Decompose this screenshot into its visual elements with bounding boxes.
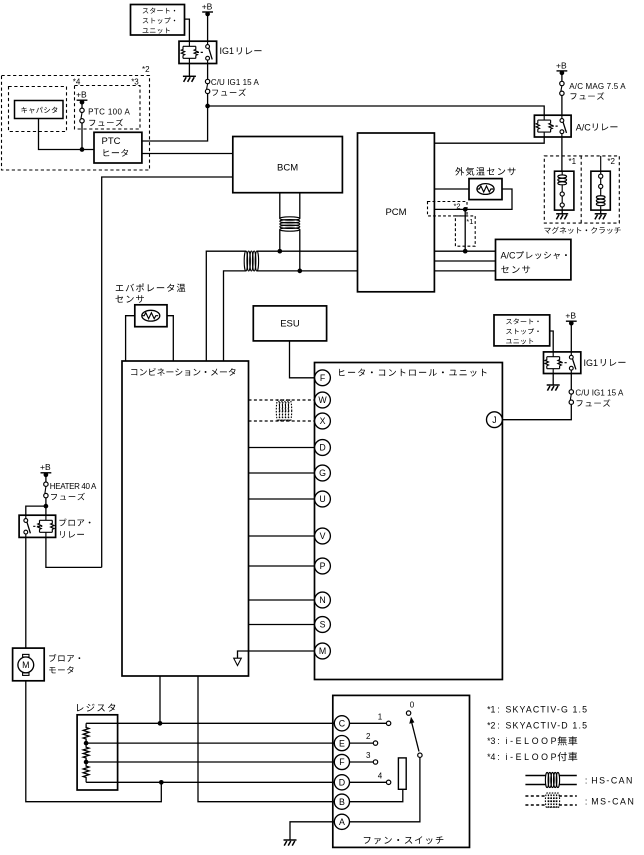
connector C (fan switch) [334,716,349,731]
connector W (heater control unit) [315,392,331,408]
connector X (heater control unit) [315,413,331,429]
label ambient temp sensor [455,167,515,176]
wire fuse to junction [207,94,209,106]
wire fuse to A/C relay switch [561,96,563,116]
wire +B to IG1 relay 2 switch [570,322,572,352]
combination meter [122,361,249,676]
IG1 relay (right) [544,352,581,374]
start-stop unit (right) [494,315,550,346]
connector N (heater control unit) [315,592,331,608]
svg-text:V: V [320,531,326,541]
svg-text::: : [497,705,499,715]
wire evap sensor left leg [126,316,135,361]
wire fuse to junction [45,498,47,506]
svg-text:MS-CAN: MS-CAN [591,796,634,806]
legend HS-CAN symbol [525,772,576,787]
fuse PTC 100 A [80,108,84,123]
connector V (heater control unit) [315,528,331,544]
blower motor [13,648,45,681]
svg-text:D: D [319,443,325,453]
junction node pressure line [463,249,468,254]
svg-text:+B: +B [202,1,213,11]
MS-CAN dashed wire W [249,399,315,401]
fuse dashed box *3 *4 [75,86,141,130]
svg-text:SKYACTIV-G 1.5: SKYACTIV-G 1.5 [506,705,588,715]
wire junction down to PTC heater [142,106,208,141]
twisted pair meter-PCM (HS-CAN) [244,251,258,271]
wire relay switch to blower motor [25,537,27,648]
fan switch rotor arm [409,717,422,758]
legend MS-CAN text [585,796,634,806]
svg-text:+B: +B [40,462,51,472]
connector D (heater control unit) [315,440,331,456]
svg-text:PCM: PCM [385,207,406,218]
fan switch contact 4 [350,771,391,784]
svg-text:M: M [22,660,29,670]
ground below IG1 relay 2 coil [547,374,560,391]
ground below clutch *1 [556,210,568,219]
fan switch resistor [350,758,407,802]
svg-text:*1: *1 [569,157,577,166]
svg-text:C/U IG1 15 A: C/U IG1 15 A [211,78,260,87]
wire CAN-H to PCM and meter [206,251,246,361]
label IG1 relay 2 [584,358,626,368]
svg-text:*4: *4 [487,752,495,762]
connector M (heater control unit) [315,643,331,659]
svg-text:F: F [320,373,326,383]
svg-text:*3: *3 [131,78,139,87]
magnet clutch coil *1 [555,171,574,210]
ambient temp sensor [469,179,502,200]
svg-text:B: B [339,797,345,807]
dashed option box *1 (sensor) [455,216,475,246]
A/C relay [534,115,571,137]
svg-text::: : [497,752,499,762]
wire junction to relay coil [45,506,47,515]
wire relay 2 switch to fuse [570,374,572,390]
arrow (continuation) [234,658,242,665]
wire BCM CAN-H down [279,193,281,219]
wire rotor to connector A [350,757,420,821]
svg-text:HS-CAN: HS-CAN [591,775,632,785]
svg-text:U: U [319,494,325,504]
A/C pressure sensor [496,239,571,279]
svg-text:*2: *2 [607,157,615,166]
wire connector A to ground [290,822,334,840]
svg-text:IG1: IG1 [584,358,599,368]
wire blower motor to fan switch D line [26,681,162,802]
legend *2 SKYACTIV-D [487,720,587,730]
wire PCM to pressure sensor 3 [434,270,495,272]
wire meter to D [249,447,315,449]
ground below IG1 relay coil [183,64,196,82]
svg-text:PTC: PTC [102,136,121,147]
label blower relay [59,518,90,538]
wire BCM to blower relay coil (long left) [102,177,233,567]
dashed option box *2 (sensor) [428,202,468,216]
+B supply (top) [202,1,213,16]
junction node line C [158,721,163,726]
connector G (heater control unit) [315,465,331,481]
wire junction to relay switch [26,506,46,515]
svg-text:+B: +B [565,311,576,321]
wire ESU to heater control F [290,341,315,378]
twisted pair meter-heater (MS-CAN) [276,400,291,422]
+B supply (A/C) [556,60,567,75]
wire PCM option *2 [434,208,465,210]
resistor unit [77,715,118,790]
svg-text::: : [497,720,499,730]
svg-text:4: 4 [378,771,383,780]
svg-text:C/U IG1 15 A: C/U IG1 15 A [575,389,624,398]
wire relay coil to BCM line [46,537,102,567]
svg-text:PTC 100 A: PTC 100 A [88,108,130,117]
junction node sensor return [463,207,468,212]
fan switch contact 1 [350,713,391,726]
svg-text::: : [585,775,587,785]
wire +B to IG1 relay switch [207,13,209,41]
wire line C [86,722,334,724]
svg-text:0: 0 [410,701,415,710]
label A/C relay [576,122,618,132]
legend *3 i-ELOOP no i-ELOOP [487,736,577,746]
wire relay switch to fuse [207,64,209,80]
label resistor [77,704,115,712]
MS-CAN dashed wire X [249,420,315,422]
svg-text:+B: +B [556,60,567,70]
label evaporator temp sensor [116,283,186,302]
svg-text:N: N [319,595,325,605]
svg-text:BCM: BCM [277,162,298,173]
connector F (heater control unit) [315,370,331,386]
label IG1 relay [220,46,262,56]
connector E (fan switch) [334,736,349,751]
junction node PTC feed [80,147,85,152]
svg-text:F: F [339,757,345,767]
legend HS-CAN text [585,775,632,785]
+B supply (heater) [40,462,51,477]
wire +B to heater fuse [45,474,47,482]
+B supply (IG1 right) [565,311,576,326]
fan switch box [333,695,470,847]
connector A (fan switch) [334,814,349,829]
magnet clutch divider [580,156,582,223]
legend MS-CAN symbol [525,793,576,808]
wire meter to S [249,624,315,626]
fuse C/U IG1 15 A (right) [569,390,573,405]
svg-text:1: 1 [378,713,383,722]
svg-text:J: J [492,415,496,425]
svg-text:SKYACTIV-D 1.5: SKYACTIV-D 1.5 [506,720,588,730]
svg-text:A: A [339,817,345,827]
svg-text:A/C: A/C [576,122,592,132]
wire ambient sensor return [465,189,512,209]
capacitor dashed box [9,87,67,132]
ground below clutch *2 [595,210,607,219]
label A/C MAG 7.5 A fuse [569,82,626,100]
svg-text:*4: *4 [73,78,81,87]
BCM [233,137,343,193]
label C/U IG1 15 A fuse 2 [575,389,624,407]
wire line D [86,781,334,783]
PTC heater [94,132,142,163]
svg-text:+B: +B [76,90,87,100]
connector J (heater control unit) [487,412,503,428]
capacitor unit [15,101,64,119]
wire fuse 2 to connector J [502,404,571,419]
svg-text:A/C MAG 7.5 A: A/C MAG 7.5 A [569,82,626,91]
svg-text::: : [585,796,587,806]
wire meter to resistor line C [159,676,161,723]
wire start-stop to IG1 relay 2 coil [550,331,554,352]
svg-text:E: E [339,738,345,748]
wire PTC heater to BCM [142,153,233,155]
wire A/C relay switch to magnet clutch [561,137,563,171]
blower relay [19,515,56,537]
junction node CAN-H [277,249,282,254]
label blower motor [49,654,80,674]
svg-text:P: P [320,561,326,571]
wire option *1 vertical [464,209,466,251]
wire meter to M with ground arrow [238,651,315,658]
fan switch contact 3 [350,751,378,764]
wire capacitor to PTC heater [39,119,95,150]
wire BCM CAN-L down [299,193,301,219]
wire PCM to ambient sensor [434,188,469,190]
twisted pair BCM (HS-CAN) [280,217,300,231]
wire meter to connector B [198,676,334,802]
magnet clutch coil *2 [591,156,610,210]
fan switch position 0 contact [406,701,414,716]
magnet clutch dashed box [544,156,619,223]
label C/U IG1 15 A fuse [211,78,260,96]
svg-text:IG1: IG1 [220,46,235,56]
wire line F [86,761,334,763]
svg-text:G: G [319,468,326,478]
fuse HEATER 40 A [44,482,48,498]
connector U (heater control unit) [315,491,331,507]
wire +B to A/C fuse [561,72,563,81]
IG1 relay (top) [179,41,217,63]
svg-text:3: 3 [366,751,371,760]
svg-text:ESU: ESU [280,319,300,330]
connector S (heater control unit) [315,617,331,633]
junction node IG1 feed [205,104,210,109]
wire meter to G [249,472,315,474]
ESU [253,306,326,341]
label HEATER 40 A fuse [50,482,97,500]
label PTC 100 A fuse [88,108,130,127]
+B supply (PTC) [76,90,87,105]
svg-text:S: S [320,620,326,630]
junction node blower feed [44,504,49,509]
svg-text:*2: *2 [454,202,461,211]
svg-text:*2: *2 [487,720,495,730]
junction node resistor tap E [84,741,89,746]
svg-text:2: 2 [366,732,371,741]
wire +B to PTC fuse [81,101,83,108]
label fan switch [364,836,444,844]
wire junction to A/C relay coil [208,106,545,115]
wire meter to N [249,599,315,601]
wire A/C relay coil to PCM [434,137,544,143]
fuse A/C MAG 7.5 A [560,81,564,95]
svg-text:HEATER 40 A: HEATER 40 A [50,482,97,491]
svg-text:*3: *3 [487,736,495,746]
wire meter to P [249,565,315,567]
heater control unit [315,363,503,680]
svg-text:X: X [320,416,326,426]
wire meter to U [249,498,315,500]
connector D (fan switch) [334,775,349,790]
evaporator temp sensor [135,305,167,327]
fuse C/U IG1 15 A (top) [205,79,209,93]
wire line E [86,742,334,744]
wire PCM to pressure sensor 2 [434,260,495,262]
svg-text:W: W [318,395,327,405]
svg-text:*2: *2 [142,65,150,74]
wire start-stop unit to IG1 relay coil [185,19,190,41]
svg-text:*1: *1 [466,217,473,226]
wire PTC fuse down [81,123,83,150]
svg-text:M: M [319,646,326,656]
wire meter to V [249,535,315,537]
start-stop unit (top) [131,5,185,36]
PCM [358,133,435,292]
svg-text:D: D [339,778,345,788]
svg-text:A/C: A/C [501,250,517,260]
svg-text:C: C [339,719,346,729]
wire CAN-L to PCM and meter [224,271,247,361]
junction node resistor tap F [84,760,89,765]
wire PCM to pressure sensor 1 [434,250,495,252]
junction node CAN-L [297,269,302,274]
option dashed box *2 [2,76,150,171]
legend *1 SKYACTIV-G [487,705,587,715]
legend *4 i-ELOOP equipped [487,752,577,762]
connector B (fan switch) [334,794,349,809]
label magnet clutch [544,227,621,234]
svg-text::: : [497,736,499,746]
fan switch contact 2 [350,732,378,745]
wire evap sensor right leg [167,316,173,361]
junction node line D / motor [159,780,164,785]
connector F (fan switch) [334,754,349,769]
ground (fan switch) [284,840,297,846]
connector P (heater control unit) [315,558,331,574]
svg-text:*1: *1 [487,705,495,715]
